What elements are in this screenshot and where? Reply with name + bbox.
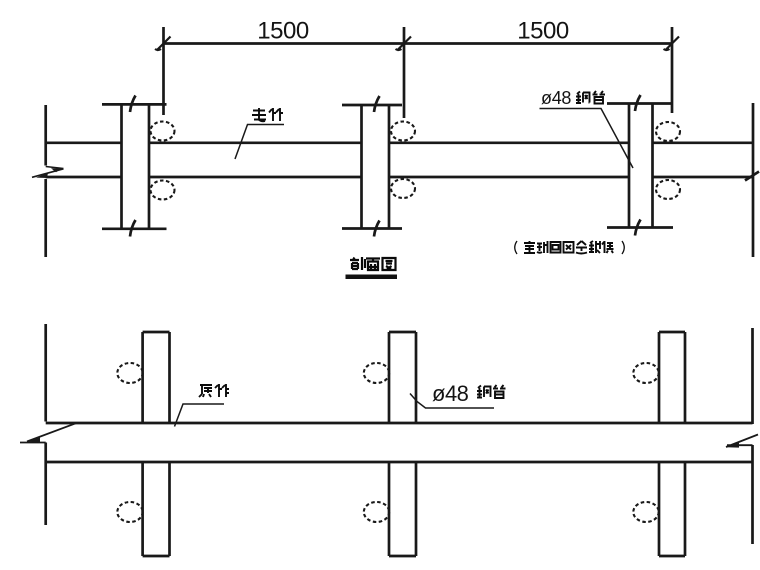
label leader (o48 bottom label) (410, 394, 494, 409)
left boundary line (top drawing) (44, 105, 47, 257)
break symbol left (bottom drawing) (20, 423, 76, 442)
coupler ellipse P1 upper (151, 122, 175, 141)
arrow blob break top-left drawing (51, 168, 62, 172)
arrow blob break bottom-left drawing (27, 437, 40, 443)
extension line right (671, 27, 674, 113)
post P2 (top drawing) (342, 105, 402, 229)
break slash P1 bottom (130, 220, 136, 237)
post P3 (top drawing) (607, 104, 673, 228)
svg-text:1500: 1500 (257, 18, 309, 45)
CJK glyph: caption char2 (537, 241, 548, 253)
post B3 (bottom drawing) (659, 332, 685, 556)
coupler ellipse P2 upper (391, 122, 415, 141)
CJK glyph: pipe char (top) (593, 91, 606, 104)
tick left (155, 37, 171, 51)
label leader (top pipe label) (235, 125, 284, 160)
CJK glyph: caption char1 (524, 241, 535, 253)
CJK glyph: top pipe label char1 (252, 108, 266, 121)
break slash P3 top (635, 95, 641, 111)
post B1 (bottom drawing) (143, 332, 170, 556)
CJK glyph: top pipe label char2 (269, 108, 283, 121)
pipe top line (top drawing) (46, 141, 753, 144)
CJK glyph: caption char4 (564, 242, 574, 253)
left boundary line (bottom drawing) (44, 324, 47, 525)
CJK glyph: caption char5 (576, 241, 587, 254)
title underline bar (346, 275, 398, 280)
right boundary line (bottom drawing) (751, 328, 754, 544)
coupler ellipse B1 upper (117, 363, 142, 383)
coupler ellipse B1 lower (117, 502, 142, 522)
coupler ellipse P3 lower (656, 180, 680, 199)
break slash P3 bottom (635, 220, 641, 236)
coupler ellipse B3 upper (633, 363, 658, 383)
coupler ellipse P3 upper (656, 122, 680, 141)
coupler ellipse B3 lower (633, 502, 658, 522)
dimension line (164, 42, 673, 45)
break symbol left (top drawing) (32, 167, 64, 178)
right boundary line (top drawing) (752, 103, 755, 257)
CJK glyph: pipe char (bottom) (493, 385, 506, 398)
extension line left (162, 27, 165, 115)
CJK glyph: caption paren close (622, 241, 624, 254)
CJK glyph: steel char (top) (576, 92, 590, 104)
CJK glyph: caption char3 (551, 242, 561, 253)
extension line middle (403, 27, 406, 118)
CJK glyph: caption paren open (515, 241, 517, 254)
beam bottom line (bottom drawing) (46, 461, 753, 464)
coupler ellipse P2 lower (391, 179, 415, 198)
svg-text:ø48: ø48 (432, 381, 469, 406)
svg-text:ø48: ø48 (541, 88, 571, 108)
title: section-view characters (350, 257, 396, 270)
CJK glyph: caption char7 (602, 241, 614, 253)
break symbol right (bottom drawing) (726, 435, 758, 448)
coupler ellipse B2 upper (364, 363, 389, 383)
CJK glyph: beam label char1 (bottom) (199, 385, 212, 397)
CJK glyph: caption char6 (589, 241, 600, 253)
tick right (664, 37, 680, 51)
coupler ellipse P1 lower (151, 181, 175, 200)
pipe bottom line (top drawing) (46, 176, 753, 179)
post P1 (top drawing) (102, 104, 167, 228)
CJK glyph: steel char (bottom) (477, 386, 491, 398)
CJK glyph: beam label char2 (bottom) (215, 384, 229, 397)
post B2 (bottom drawing) (389, 332, 416, 556)
arrow blob break bottom-right drawing (726, 442, 739, 448)
label leader (o48 top label) (540, 109, 634, 169)
svg-text:1500: 1500 (517, 18, 569, 45)
break slash P2 top (374, 96, 380, 112)
beam top line (bottom drawing) (46, 422, 753, 425)
tick middle (396, 37, 412, 51)
break tick right (top drawing) (745, 172, 759, 181)
break slash P2 bottom (374, 221, 380, 237)
coupler ellipse B2 lower (364, 502, 389, 522)
label leader (beam label bottom drawing) (175, 404, 225, 427)
break slash P1 top (130, 96, 136, 113)
